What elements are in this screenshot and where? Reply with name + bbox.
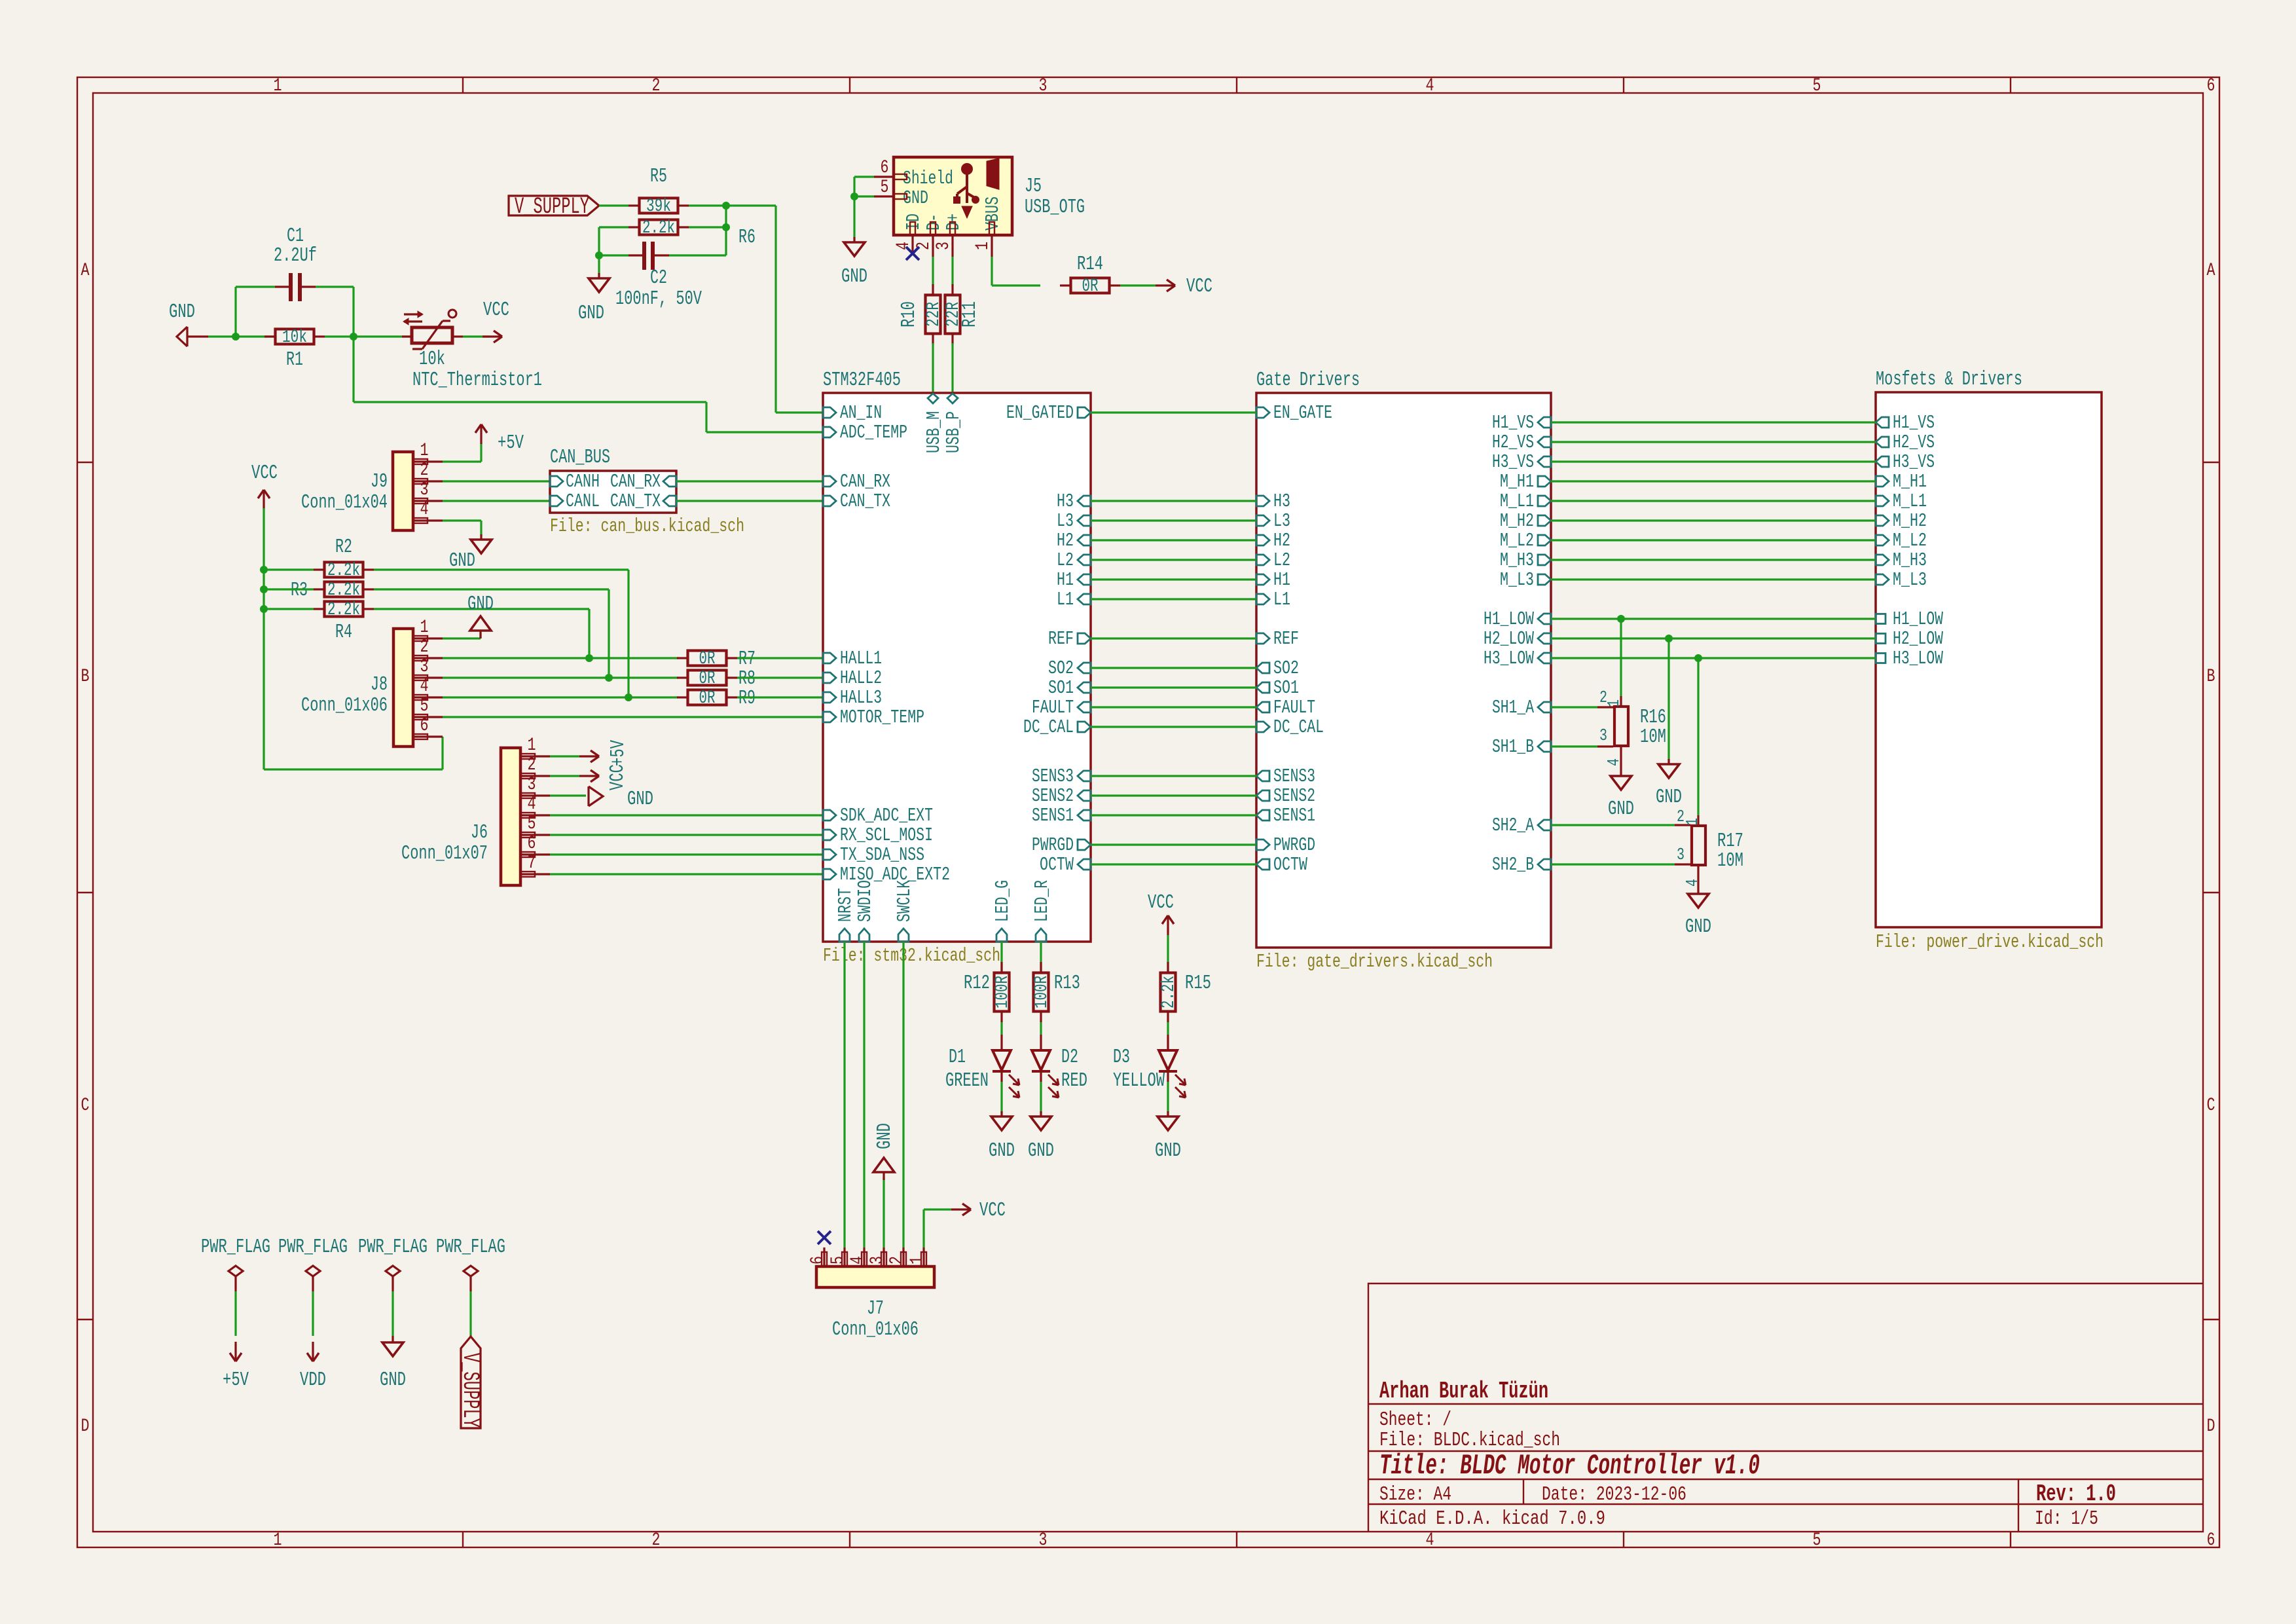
svg-text:USB_M: USB_M — [923, 411, 945, 453]
svg-text:A: A — [2207, 261, 2215, 281]
svg-text:R11: R11 — [958, 301, 981, 327]
svg-text:LED_R: LED_R — [1031, 880, 1053, 922]
power GND below R16 — [1608, 776, 1634, 821]
svg-text:3: 3 — [420, 657, 429, 677]
svg-text:SENS3: SENS3 — [1273, 766, 1315, 787]
svg-text:5: 5 — [1813, 76, 1821, 96]
svg-text:R10: R10 — [898, 301, 920, 327]
svg-text:H2: H2 — [1057, 530, 1074, 551]
wire J7 pin3 GND — [883, 1177, 884, 1247]
svg-text:D: D — [81, 1416, 90, 1437]
svg-text:D2: D2 — [1061, 1046, 1078, 1069]
wire R14 to VCC — [1120, 284, 1156, 286]
svg-text:R15: R15 — [1185, 972, 1211, 995]
global label V_SUPPLY flag — [436, 1236, 505, 1428]
svg-text:39k: 39k — [646, 196, 671, 217]
resistor R2 — [314, 536, 374, 581]
wire DC_CAL — [1091, 726, 1256, 728]
wire J6 pin6 — [550, 853, 823, 855]
no-connect X on J5 pin4 — [906, 247, 919, 260]
svg-text:4: 4 — [1604, 758, 1624, 766]
svg-text:Title: BLDC Motor Controller v: Title: BLDC Motor Controller v1.0 — [1379, 1450, 1760, 1483]
wire J6 pin5 — [550, 834, 823, 836]
wire LED_R stub — [1040, 942, 1042, 972]
power VCC at J6 pin2 — [579, 764, 629, 790]
wire J7 pin1 VCC — [924, 1209, 951, 1247]
wire REF — [1091, 637, 1256, 639]
svg-text:R12: R12 — [964, 972, 990, 995]
wire M_L2 — [1551, 539, 1876, 541]
LED D2 — [1032, 1022, 1087, 1113]
wire D- to R10 — [932, 257, 934, 286]
svg-text:M_L2: M_L2 — [1500, 530, 1534, 551]
svg-text:M_L1: M_L1 — [1893, 490, 1927, 512]
svg-text:PWRGD: PWRGD — [1032, 834, 1074, 856]
wire J5 shield — [854, 177, 874, 238]
svg-text:Shield: Shield — [903, 168, 953, 189]
wire R10 to USB_M — [932, 343, 934, 392]
power VCC of VBUS — [1156, 275, 1212, 298]
wire H1_LOW — [1551, 618, 1876, 619]
connector J7 — [808, 1247, 934, 1341]
svg-text:NTC_Thermistor1: NTC_Thermistor1 — [412, 369, 542, 392]
svg-text:GND: GND — [841, 265, 867, 288]
power VCC at J7 — [951, 1199, 1006, 1222]
svg-text:Conn_01x07: Conn_01x07 — [401, 842, 488, 865]
wire NRST — [843, 942, 845, 1247]
wire OCTW — [1091, 863, 1256, 865]
svg-text:5: 5 — [1813, 1530, 1821, 1551]
svg-text:GND: GND — [873, 1123, 896, 1149]
svg-text:SH2_B: SH2_B — [1492, 854, 1534, 876]
power flag PWR_FLAG2 — [278, 1236, 348, 1392]
svg-text:CANL: CANL — [566, 490, 600, 512]
svg-text:R4: R4 — [335, 621, 352, 644]
svg-text:2.2k: 2.2k — [1159, 976, 1179, 1008]
svg-text:USB_OTG: USB_OTG — [1025, 196, 1085, 219]
svg-text:CAN_BUS: CAN_BUS — [550, 446, 610, 469]
wire SENS2 — [1091, 794, 1256, 796]
resistor R5 — [629, 165, 689, 217]
svg-text:SENS2: SENS2 — [1032, 785, 1074, 807]
wire H1_VS — [1551, 421, 1876, 423]
svg-text:H1_LOW: H1_LOW — [1484, 608, 1534, 630]
svg-text:ADC_TEMP: ADC_TEMP — [840, 422, 907, 443]
wire VCC to R15 — [1167, 935, 1169, 972]
svg-text:VDD: VDD — [300, 1369, 326, 1392]
sheet STM32F405 — [823, 369, 1091, 967]
wire VCC rail — [264, 508, 443, 769]
global label V_SUPPLY — [509, 194, 599, 220]
node R5 out — [722, 202, 730, 210]
svg-text:SO2: SO2 — [1048, 657, 1074, 679]
svg-text:GND: GND — [578, 302, 604, 325]
capacitor C1 — [274, 225, 317, 301]
svg-text:SH2_A: SH2_A — [1492, 815, 1534, 836]
svg-text:Arhan Burak Tüzün: Arhan Burak Tüzün — [1379, 1378, 1548, 1405]
svg-text:3: 3 — [867, 1256, 888, 1264]
svg-text:1: 1 — [1683, 818, 1702, 826]
svg-text:CAN_RX: CAN_RX — [840, 471, 890, 492]
resistor R17 — [1675, 807, 1743, 894]
svg-text:TX_SDA_NSS: TX_SDA_NSS — [840, 844, 924, 866]
wire M_L3 — [1551, 578, 1876, 580]
svg-text:M_H1: M_H1 — [1893, 471, 1927, 492]
svg-text:V_SUPPLY: V_SUPPLY — [457, 1353, 483, 1428]
svg-text:H1: H1 — [1057, 569, 1074, 591]
svg-text:GND: GND — [467, 593, 494, 616]
svg-text:10M: 10M — [1717, 849, 1743, 872]
svg-text:VCC: VCC — [1148, 891, 1174, 914]
node HALL3 — [625, 693, 632, 701]
wire HALL3 — [443, 696, 678, 698]
svg-text:Conn_01x06: Conn_01x06 — [832, 1318, 919, 1341]
svg-text:J5: J5 — [1025, 175, 1042, 198]
wire SH1_A — [1551, 706, 1597, 708]
svg-text:PWR_FLAG: PWR_FLAG — [201, 1236, 270, 1259]
svg-text:4: 4 — [894, 242, 914, 250]
sheet Mosfets & Drivers — [1876, 368, 2104, 953]
svg-text:Id: 1/5: Id: 1/5 — [2035, 1507, 2098, 1530]
svg-text:STM32F405: STM32F405 — [823, 369, 901, 392]
svg-text:CAN_TX: CAN_TX — [610, 490, 661, 512]
wire M_H2 — [1551, 519, 1876, 521]
svg-text:H2_LOW: H2_LOW — [1893, 628, 1943, 650]
resistor R4 — [314, 600, 374, 644]
net label GND on R2 wire — [449, 549, 475, 572]
svg-text:REF: REF — [1273, 628, 1299, 650]
wire J6 pin7 — [550, 873, 823, 875]
node VCC R3 — [260, 585, 268, 593]
svg-text:D: D — [2207, 1416, 2215, 1437]
svg-text:2.2k: 2.2k — [642, 218, 675, 238]
svg-text:1: 1 — [274, 1530, 282, 1551]
svg-text:Conn_01x04: Conn_01x04 — [301, 491, 388, 514]
resistor R15 — [1159, 962, 1211, 1022]
wire L1 — [1091, 598, 1256, 600]
resistor R6 — [629, 218, 756, 249]
svg-text:R1: R1 — [286, 348, 303, 371]
svg-text:2: 2 — [652, 76, 661, 96]
svg-text:VBUS: VBUS — [982, 196, 1004, 231]
svg-text:PWR_FLAG: PWR_FLAG — [358, 1236, 428, 1259]
wire H2_LOW to GND — [1667, 638, 1669, 760]
svg-text:VCC: VCC — [251, 462, 278, 485]
svg-text:2: 2 — [887, 1256, 907, 1264]
wire D+ to R11 — [951, 257, 953, 286]
wire J8 pin1 gnd — [443, 633, 481, 638]
svg-text:L2: L2 — [1057, 549, 1074, 571]
power GND below C2 — [578, 273, 610, 325]
wire L3 — [1091, 519, 1256, 521]
wire C1 left — [236, 287, 275, 337]
wire CAN_RX to STM32 — [676, 480, 823, 482]
svg-text:HALL3: HALL3 — [840, 687, 882, 709]
svg-text:Rev: 1.0: Rev: 1.0 — [2036, 1481, 2116, 1507]
node HALL2 — [605, 674, 613, 682]
svg-text:6: 6 — [2207, 1530, 2215, 1551]
svg-text:VCC: VCC — [979, 1199, 1006, 1222]
power GND below J5 — [841, 237, 867, 288]
thermistor TH1 — [402, 310, 542, 392]
sheet Gate Drivers — [1256, 369, 1551, 972]
wire C2 right — [669, 254, 726, 256]
svg-text:H1_VS: H1_VS — [1893, 412, 1935, 434]
svg-text:3: 3 — [1039, 76, 1048, 96]
wire H2_VS — [1551, 441, 1876, 443]
svg-text:C: C — [2207, 1096, 2215, 1116]
svg-text:MOTOR_TEMP: MOTOR_TEMP — [840, 707, 924, 728]
wire PWRGD — [1091, 843, 1256, 845]
svg-text:SH1_A: SH1_A — [1492, 697, 1534, 718]
resistor R8 — [677, 667, 756, 690]
svg-text:5: 5 — [828, 1256, 848, 1264]
svg-text:4: 4 — [1426, 1530, 1434, 1551]
svg-text:J6: J6 — [471, 821, 488, 844]
svg-text:File: gate_drivers.kicad_sch: File: gate_drivers.kicad_sch — [1256, 951, 1493, 972]
svg-text:6: 6 — [2207, 76, 2215, 96]
svg-text:VCC: VCC — [606, 764, 629, 790]
wire SO1 — [1091, 686, 1256, 688]
svg-text:GND: GND — [1656, 786, 1682, 809]
resistor R9 — [677, 687, 756, 710]
svg-text:EN_GATED: EN_GATED — [1006, 402, 1074, 424]
svg-text:SENS2: SENS2 — [1273, 785, 1315, 807]
svg-text:GND: GND — [169, 301, 195, 323]
svg-text:100nF, 50V: 100nF, 50V — [615, 287, 702, 310]
wire CAN_TX to STM32 — [676, 500, 823, 502]
wire SO2 — [1091, 667, 1256, 669]
svg-text:3: 3 — [420, 480, 429, 500]
wire SWDIO — [863, 942, 865, 1247]
svg-text:M_H2: M_H2 — [1500, 510, 1534, 532]
svg-text:SDK_ADC_EXT: SDK_ADC_EXT — [840, 805, 933, 826]
node H2_LOW — [1665, 635, 1673, 642]
svg-text:L3: L3 — [1057, 510, 1074, 532]
resistor R14 — [1060, 253, 1120, 297]
svg-text:HALL2: HALL2 — [840, 667, 882, 689]
svg-text:R5: R5 — [650, 165, 667, 188]
svg-text:L2: L2 — [1273, 549, 1290, 571]
wire FAULT — [1091, 706, 1256, 708]
node C2 left — [595, 251, 603, 259]
svg-text:100R: 100R — [1032, 976, 1052, 1008]
wire H3_VS — [1551, 460, 1876, 462]
svg-text:FAULT: FAULT — [1032, 697, 1074, 718]
wire H1_LOW to R16 — [1620, 619, 1622, 696]
svg-text:L1: L1 — [1057, 589, 1074, 610]
power VCC rail arrow — [251, 462, 278, 509]
svg-text:C: C — [81, 1096, 90, 1116]
resistor R7 — [677, 648, 756, 671]
wire SENS3 — [1091, 775, 1256, 777]
svg-text:PWR_FLAG: PWR_FLAG — [436, 1236, 505, 1259]
svg-text:Sheet: /: Sheet: / — [1379, 1409, 1451, 1431]
wire C1 right — [316, 287, 354, 337]
svg-text:M_L3: M_L3 — [1893, 569, 1927, 591]
wire R9 to STM32 — [737, 696, 823, 698]
svg-text:GND: GND — [380, 1369, 406, 1392]
wire SH2_A — [1551, 824, 1675, 826]
wire HALL1 — [443, 657, 678, 659]
wire MOTOR_TEMP — [443, 716, 823, 718]
svg-text:EN_GATE: EN_GATE — [1273, 402, 1332, 424]
svg-text:6: 6 — [420, 716, 429, 736]
svg-text:22R: 22R — [924, 302, 944, 327]
svg-text:L3: L3 — [1273, 510, 1290, 532]
wire ADC_TEMP run — [354, 337, 823, 432]
wire R4 out — [374, 609, 589, 658]
svg-text:SH1_B: SH1_B — [1492, 736, 1534, 758]
wire J9 pin4 GND — [443, 521, 481, 536]
svg-text:2.2k: 2.2k — [327, 580, 360, 600]
resistor R10 — [898, 284, 944, 344]
svg-text:2: 2 — [420, 637, 429, 657]
svg-text:SENS3: SENS3 — [1032, 766, 1074, 787]
svg-text:4: 4 — [528, 794, 536, 815]
resistor R16 — [1597, 688, 1666, 776]
LED D3 — [1113, 1022, 1186, 1113]
svg-text:10k: 10k — [419, 348, 445, 371]
svg-text:7: 7 — [528, 853, 536, 874]
resistor R12 — [964, 962, 1013, 1022]
node VCC R4 — [260, 605, 268, 613]
wire R2 out — [374, 570, 629, 697]
svg-text:GND: GND — [1608, 798, 1634, 821]
svg-text:M_L1: M_L1 — [1500, 490, 1534, 512]
svg-text:GND: GND — [989, 1139, 1015, 1162]
svg-text:1: 1 — [420, 618, 429, 638]
power GND label at J6 pin3 — [589, 786, 653, 811]
wire R3 out — [374, 589, 609, 678]
svg-text:H2_VS: H2_VS — [1893, 432, 1935, 453]
svg-text:CAN_RX: CAN_RX — [610, 471, 661, 492]
svg-text:3: 3 — [934, 242, 954, 250]
wire HALL2 — [443, 676, 678, 678]
svg-text:2: 2 — [420, 460, 429, 481]
wire R7 to STM32 — [737, 657, 823, 659]
svg-text:4: 4 — [420, 676, 429, 697]
wire SH2_B — [1551, 863, 1675, 865]
capacitor C2 — [615, 242, 702, 310]
power GND below D2 — [1028, 1111, 1054, 1162]
svg-text:AN_IN: AN_IN — [840, 402, 882, 424]
svg-text:FAULT: FAULT — [1273, 697, 1315, 718]
svg-text:Gate Drivers: Gate Drivers — [1256, 369, 1360, 392]
svg-text:H1_VS: H1_VS — [1492, 412, 1534, 434]
svg-text:0R: 0R — [699, 688, 716, 709]
svg-text:LED_G: LED_G — [992, 880, 1013, 922]
svg-text:H2_VS: H2_VS — [1492, 432, 1534, 453]
svg-text:1: 1 — [973, 242, 993, 250]
svg-text:YELLOW: YELLOW — [1113, 1069, 1165, 1092]
svg-text:H3: H3 — [1057, 490, 1074, 512]
wire J6 pin3 — [550, 794, 586, 796]
svg-text:4: 4 — [1683, 879, 1702, 887]
svg-text:File: stm32.kicad_sch: File: stm32.kicad_sch — [823, 945, 1000, 967]
wire J9 pin3 CANL — [443, 500, 550, 502]
svg-text:1: 1 — [528, 735, 536, 756]
wire H2 — [1091, 539, 1256, 541]
LED D1 — [945, 1022, 1019, 1113]
svg-text:HALL1: HALL1 — [840, 648, 882, 669]
wire H2_LOW — [1551, 637, 1876, 639]
wire SENS1 — [1091, 814, 1256, 816]
wire R1 to node B — [325, 335, 412, 337]
svg-text:+5V: +5V — [223, 1369, 249, 1392]
svg-text:Date: 2023-12-06: Date: 2023-12-06 — [1542, 1483, 1686, 1506]
svg-text:3: 3 — [1677, 845, 1685, 864]
svg-text:H1_LOW: H1_LOW — [1893, 608, 1943, 630]
svg-text:Conn_01x06: Conn_01x06 — [301, 694, 388, 717]
power GND below D3 — [1155, 1111, 1181, 1162]
svg-text:REF: REF — [1048, 628, 1074, 650]
svg-text:GND: GND — [1028, 1139, 1054, 1162]
svg-text:SENS1: SENS1 — [1032, 805, 1074, 826]
power VCC above R15 — [1148, 891, 1174, 935]
svg-text:6: 6 — [808, 1256, 828, 1264]
resistor R11 — [943, 284, 981, 344]
svg-text:+5V: +5V — [498, 432, 524, 454]
svg-text:0R: 0R — [699, 669, 716, 689]
power flag PWR_FLAG1 — [201, 1236, 270, 1392]
node junction B — [350, 333, 357, 341]
svg-text:NRST: NRST — [835, 888, 856, 922]
wire thermistor to VCC — [463, 335, 490, 337]
svg-text:CANH: CANH — [566, 471, 600, 492]
connector J8 — [301, 618, 443, 747]
node junction A — [232, 333, 240, 341]
svg-text:OCTW: OCTW — [1040, 854, 1074, 876]
resistor R3 — [291, 579, 374, 602]
wire R11 to USB_P — [951, 343, 953, 392]
node R6 out — [722, 223, 730, 231]
svg-text:File: power_drive.kicad_sch: File: power_drive.kicad_sch — [1876, 931, 2104, 953]
svg-text:H3_LOW: H3_LOW — [1484, 648, 1534, 669]
svg-text:L1: L1 — [1273, 589, 1290, 610]
svg-text:Size: A4: Size: A4 — [1379, 1483, 1451, 1506]
wire J6 pin1 — [550, 755, 579, 757]
svg-text:2: 2 — [652, 1530, 661, 1551]
svg-text:H3_LOW: H3_LOW — [1893, 648, 1943, 669]
wire M_H3 — [1551, 559, 1876, 561]
svg-text:10M: 10M — [1640, 726, 1666, 748]
wire J6 pin2 — [550, 775, 579, 777]
svg-text:2.2k: 2.2k — [327, 600, 360, 620]
wire R8 to STM32 — [737, 676, 823, 678]
node HALL1 — [585, 654, 593, 662]
svg-text:4: 4 — [420, 500, 429, 520]
svg-text:2: 2 — [528, 755, 536, 775]
svg-text:M_H3: M_H3 — [1500, 549, 1534, 571]
wire H3_LOW to R17 — [1697, 658, 1699, 815]
svg-text:2.2k: 2.2k — [327, 561, 360, 581]
power GND up at J7 — [873, 1123, 896, 1180]
svg-text:J8: J8 — [371, 673, 388, 696]
wire J9 pin2 CANH — [443, 480, 550, 482]
node H3_LOW — [1694, 654, 1702, 662]
wire H1 — [1091, 578, 1256, 580]
connector J6 — [401, 735, 550, 885]
svg-text:B: B — [81, 667, 90, 687]
svg-text:SO1: SO1 — [1048, 677, 1074, 699]
wire EN_GATE — [1091, 411, 1256, 413]
svg-text:10k: 10k — [282, 327, 307, 348]
svg-text:GND: GND — [627, 788, 653, 811]
connector J5 USB_OTG — [874, 157, 1085, 257]
svg-text:H3: H3 — [1273, 490, 1290, 512]
power GND below J9 — [471, 534, 492, 553]
